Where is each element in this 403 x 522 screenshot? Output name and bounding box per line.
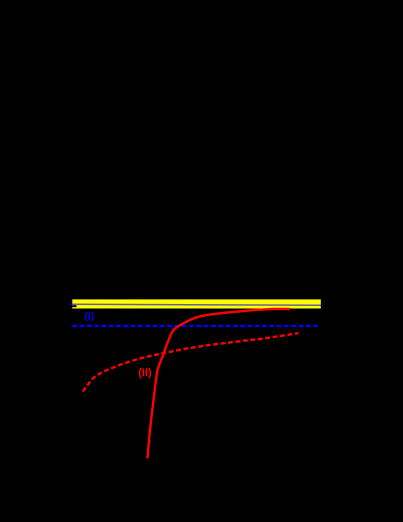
black notch at left end of yellow band — [72, 305, 76, 307]
svg-text:(II): (II) — [138, 367, 152, 379]
svg-text:(I): (I) — [84, 310, 94, 322]
red solid curve — [147, 309, 290, 459]
yellow highlight band (asymptote highlight) — [72, 299, 320, 308]
translucent blue asymptote line through yellow band — [70, 304, 323, 305]
blue dashed line (I) — [72, 325, 317, 327]
red dashed curve (II) — [83, 333, 299, 391]
